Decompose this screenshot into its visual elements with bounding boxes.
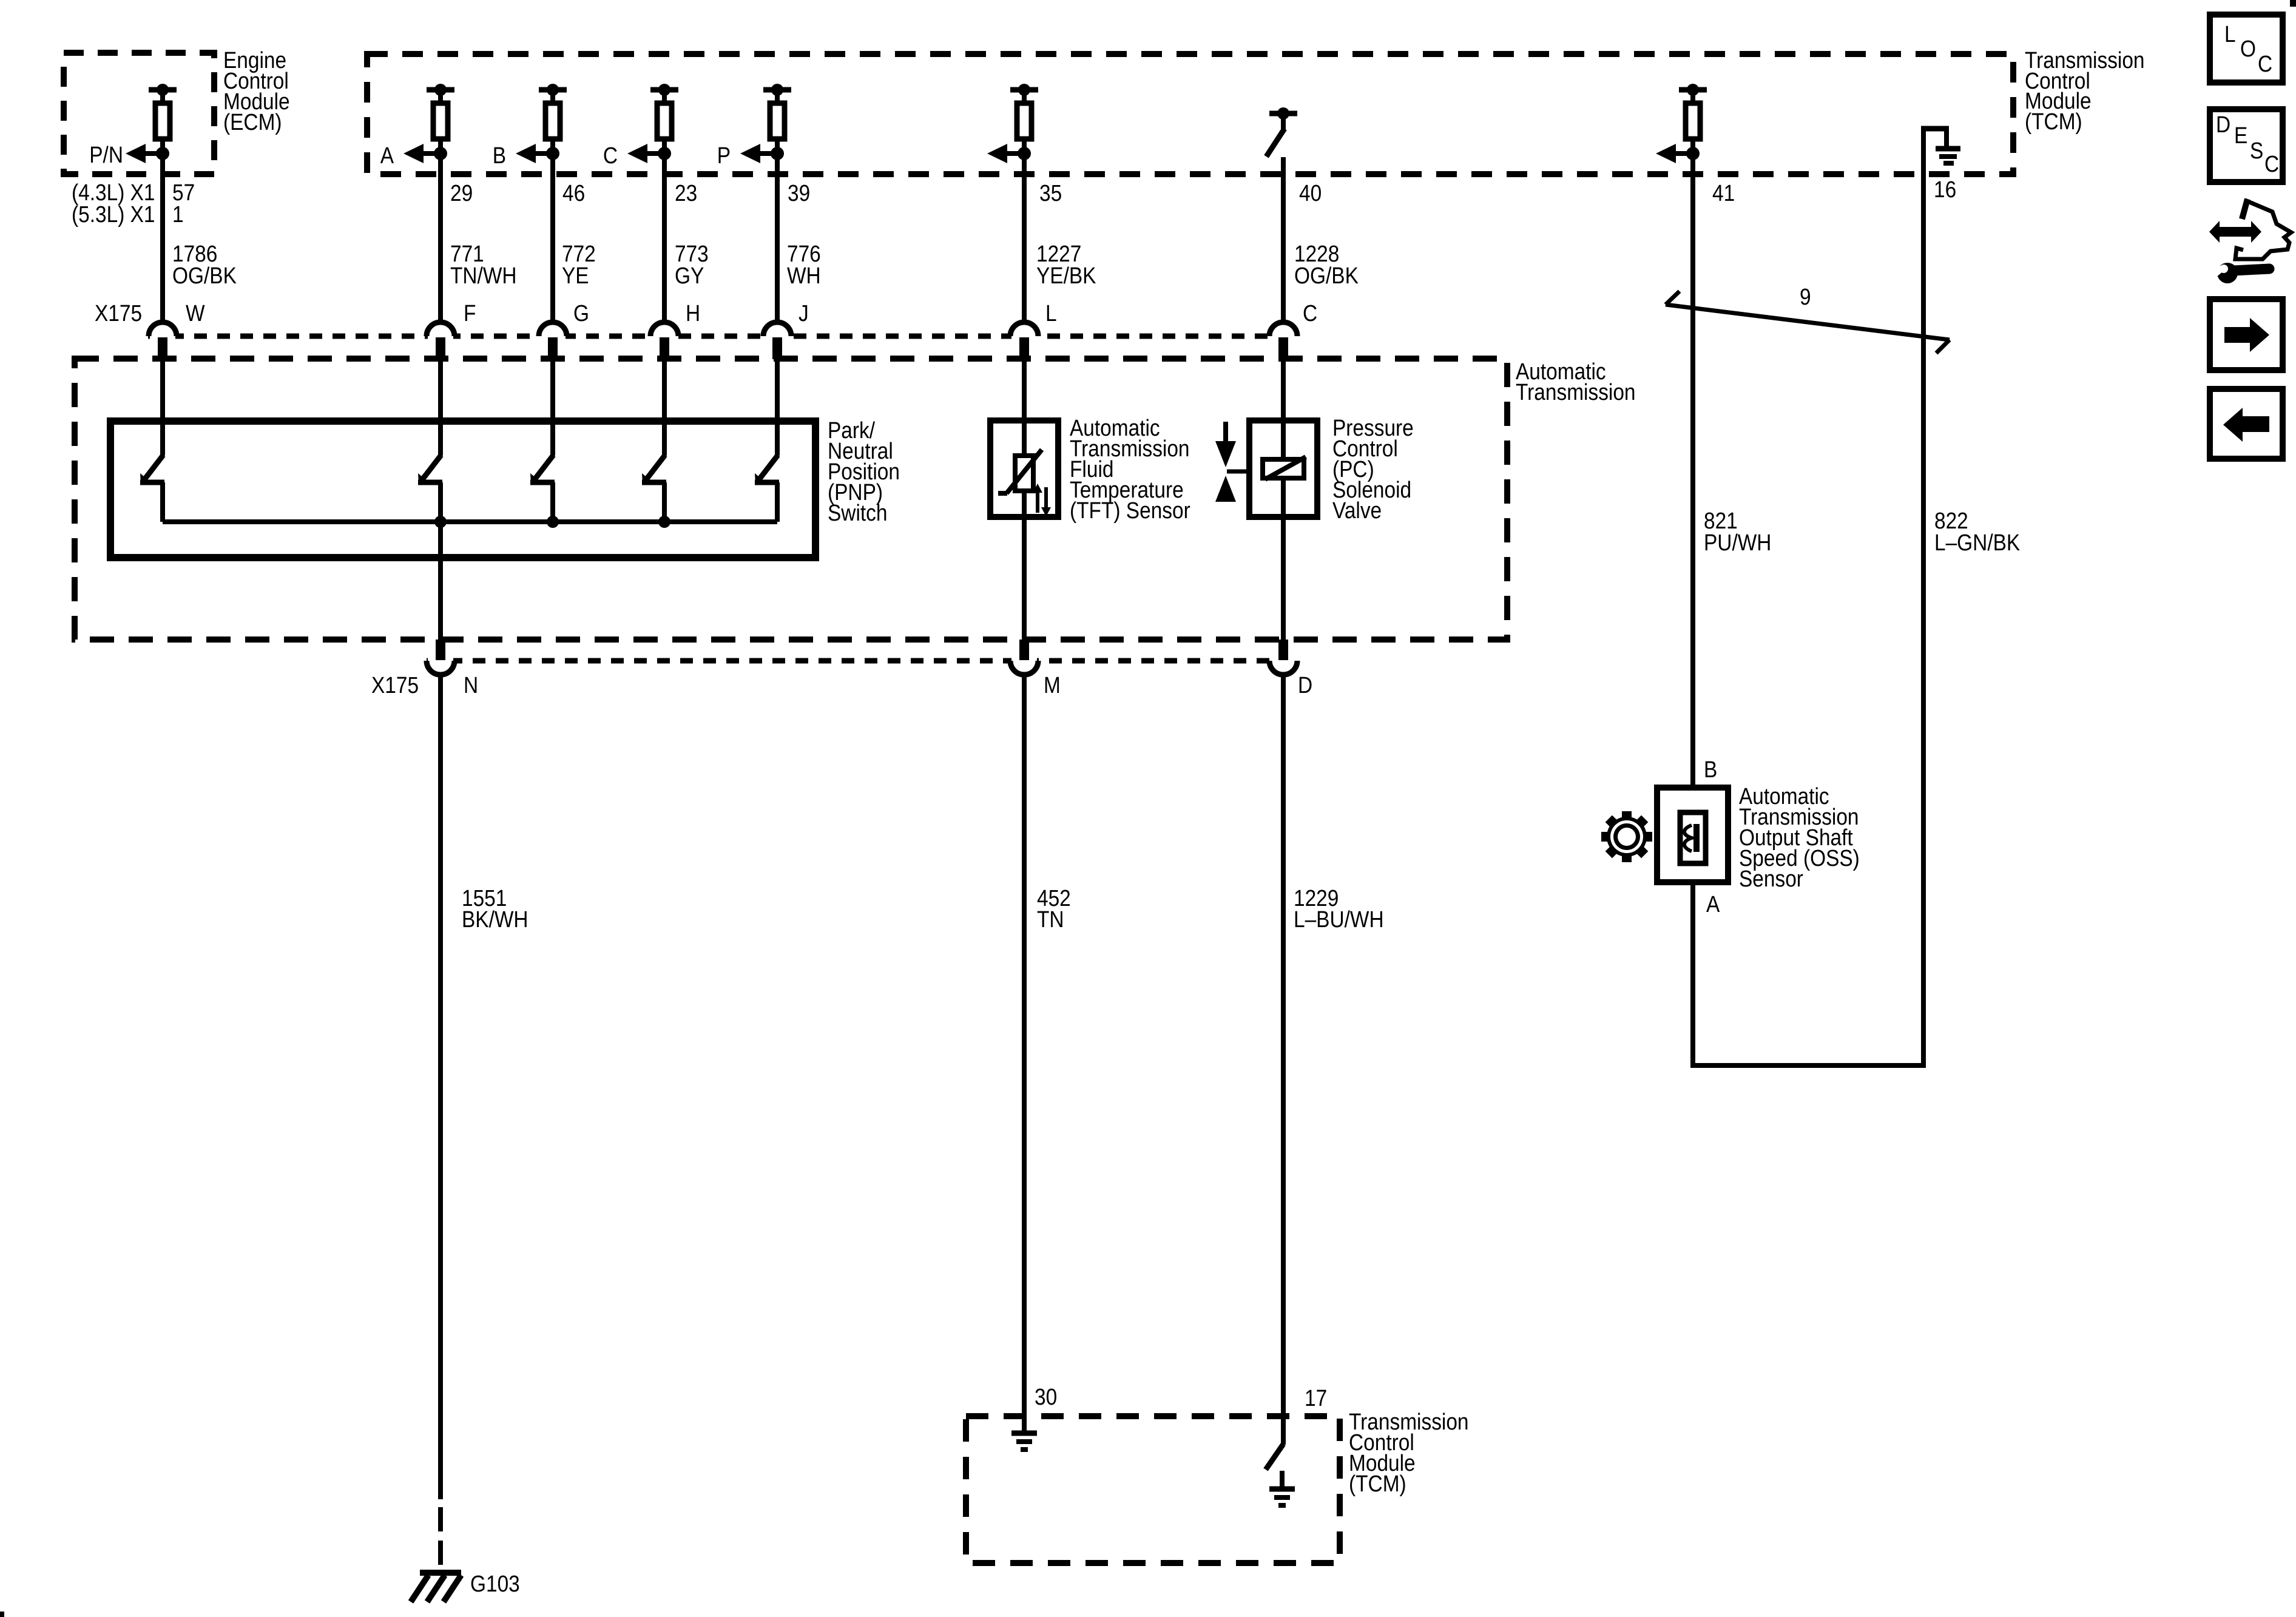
PC label bbox=[1332, 415, 1414, 523]
wire label 771 TN/WH bbox=[450, 241, 517, 288]
wire 773 GY: TCM pin 23 to connector X175-H bbox=[662, 154, 667, 322]
wire bottom link OSS-A to 822 bbox=[1690, 1063, 1926, 1068]
svg-text:OG/BK: OG/BK bbox=[172, 263, 237, 288]
TFT sensor box bbox=[990, 420, 1058, 517]
svg-text:W: W bbox=[186, 300, 205, 326]
svg-text:B: B bbox=[1704, 757, 1717, 782]
wire 822 L-GN/BK: TCM pin 16 down bbox=[1921, 175, 1926, 1068]
svg-text:30: 30 bbox=[1035, 1384, 1057, 1409]
DESC icon box bbox=[2210, 109, 2283, 182]
TCM internal resistor pin P (39) bbox=[740, 84, 791, 163]
svg-text:P: P bbox=[717, 143, 731, 168]
svg-text:G: G bbox=[573, 300, 589, 326]
svg-text:S: S bbox=[2250, 138, 2263, 163]
ECM internal resistor pin P/N bbox=[126, 84, 177, 163]
TCM internal resistor pin C (23) bbox=[627, 84, 678, 163]
svg-text:J: J bbox=[799, 300, 809, 326]
Automatic Transmission label bbox=[1516, 359, 1636, 405]
svg-text:(ECM): (ECM) bbox=[223, 109, 282, 135]
svg-text:A: A bbox=[380, 143, 394, 168]
connector cavity L bbox=[1010, 322, 1038, 359]
wire 1786 OG/BK: ECM pin 57/1 to connector X175-W bbox=[160, 154, 165, 322]
svg-text:GY: GY bbox=[675, 263, 704, 288]
wire label 773 GY bbox=[675, 241, 709, 288]
PNP switch contact 1 (W) bbox=[140, 455, 164, 522]
wire 772 YE: TCM pin 46 to connector X175-G bbox=[550, 154, 555, 322]
svg-text:TN/WH: TN/WH bbox=[450, 263, 517, 288]
X175 connector line (bottom) bbox=[427, 658, 1294, 664]
X175 connector line (top) bbox=[148, 334, 1297, 339]
svg-text:X175: X175 bbox=[95, 300, 142, 326]
svg-text:M: M bbox=[1044, 672, 1061, 698]
TCM internal ground pin 30 bbox=[1011, 1433, 1037, 1450]
wire 771 TN/WH: TCM pin 29 to connector X175-F bbox=[438, 154, 443, 322]
wire W into PNP switch bbox=[160, 359, 165, 456]
PNP common bus wire bbox=[163, 519, 777, 524]
OSS sensor box bbox=[1657, 788, 1728, 882]
svg-text:(TFT) Sensor: (TFT) Sensor bbox=[1070, 498, 1190, 523]
PC valve symbol bbox=[1215, 422, 1249, 502]
wire G into PNP switch bbox=[550, 359, 555, 456]
svg-text:16: 16 bbox=[1934, 177, 1956, 202]
svg-text:D: D bbox=[1298, 672, 1312, 698]
wire label 772 YE bbox=[562, 241, 596, 288]
svg-text:Sensor: Sensor bbox=[1739, 866, 1803, 891]
wire F into PNP switch bbox=[438, 359, 443, 456]
svg-text:Transmission: Transmission bbox=[1516, 379, 1636, 405]
svg-text:9: 9 bbox=[1800, 284, 1811, 309]
connector cavity H bbox=[650, 322, 678, 359]
wire OSS pin A down bbox=[1690, 882, 1695, 1068]
svg-text:OG/BK: OG/BK bbox=[1294, 263, 1359, 288]
wire C through PC solenoid to connector bbox=[1281, 359, 1286, 641]
wire 1229 L-BU/WH: connector X175-D to TCM pin 17 bbox=[1281, 675, 1286, 1445]
connector cavity M bbox=[1010, 640, 1038, 675]
TCM label (top) bbox=[2025, 47, 2145, 134]
wire 1551 dashed segment near ground bbox=[438, 1507, 443, 1573]
ECM label bbox=[223, 47, 290, 135]
connector cavity C bbox=[1269, 322, 1297, 359]
wire label 776 WH bbox=[787, 241, 821, 288]
TCM internal resistor pin B (46) bbox=[516, 84, 567, 163]
PNP switch contact 3 (G) bbox=[530, 455, 555, 522]
svg-text:46: 46 bbox=[562, 180, 585, 206]
wire 1228 OG/BK: TCM pin 40 to connector X175-C bbox=[1281, 157, 1286, 322]
svg-text:35: 35 bbox=[1039, 180, 1062, 206]
svg-text:(TCM): (TCM) bbox=[1349, 1471, 1406, 1496]
svg-text:PU/WH: PU/WH bbox=[1704, 530, 1771, 555]
svg-text:C: C bbox=[1303, 300, 1317, 326]
svg-text:(5.3L) X1: (5.3L) X1 bbox=[72, 201, 155, 227]
junction dot F bbox=[434, 516, 447, 528]
TCM label (bottom) bbox=[1349, 1409, 1469, 1496]
svg-text:L–BU/WH: L–BU/WH bbox=[1294, 906, 1384, 932]
svg-text:40: 40 bbox=[1299, 180, 1322, 206]
svg-text:1: 1 bbox=[172, 201, 184, 227]
wire H into PNP switch bbox=[662, 359, 667, 456]
svg-text:YE: YE bbox=[562, 263, 589, 288]
TCM dashed module box (top) bbox=[367, 54, 2013, 174]
svg-text:E: E bbox=[2234, 123, 2247, 148]
wire label 822 L-GN/BK bbox=[1934, 508, 2020, 555]
OSS label bbox=[1739, 783, 1860, 891]
svg-text:L–GN/BK: L–GN/BK bbox=[1934, 530, 2020, 555]
svg-text:29: 29 bbox=[450, 180, 473, 206]
reference line 9 (off-page) bbox=[1666, 305, 1950, 340]
TCM internal resistor pin 35 bbox=[987, 84, 1038, 163]
wire label 1227 YE/BK bbox=[1036, 241, 1096, 288]
LOC icon box bbox=[2210, 15, 2283, 83]
svg-text:C: C bbox=[2264, 151, 2279, 177]
svg-text:P/N: P/N bbox=[89, 142, 123, 167]
svg-text:BK/WH: BK/WH bbox=[462, 906, 528, 932]
connector cavity F bbox=[427, 322, 454, 359]
connector cavity W bbox=[149, 322, 177, 359]
svg-text:41: 41 bbox=[1712, 180, 1735, 206]
page corner mark bottom-left bbox=[0, 1612, 4, 1617]
svg-text:YE/BK: YE/BK bbox=[1036, 263, 1096, 288]
svg-text:WH: WH bbox=[787, 263, 821, 288]
svg-text:B: B bbox=[493, 143, 506, 168]
TCM internal ground pin 17 bbox=[1269, 1489, 1295, 1505]
page corner mark top-right bbox=[2290, 0, 2296, 7]
svg-text:(TCM): (TCM) bbox=[2025, 109, 2082, 134]
ground G103 bbox=[411, 1573, 461, 1602]
svg-text:C: C bbox=[2258, 51, 2272, 76]
connector cavity G bbox=[539, 322, 567, 359]
wire L through TFT sensor to connector bbox=[1022, 359, 1027, 641]
diagnostic hand/wrench icon bbox=[2209, 199, 2291, 283]
svg-text:L: L bbox=[1045, 300, 1057, 326]
Automatic Transmission dashed box bbox=[75, 359, 1507, 640]
left arrow icon box bbox=[2210, 389, 2283, 459]
wire 1227 YE/BK: TCM pin 35 to connector X175-L bbox=[1022, 154, 1027, 322]
connector cavity D bbox=[1269, 640, 1297, 675]
svg-text:L: L bbox=[2224, 21, 2236, 47]
svg-text:D: D bbox=[2216, 112, 2230, 137]
svg-text:Switch: Switch bbox=[828, 500, 887, 525]
svg-text:17: 17 bbox=[1305, 1385, 1327, 1411]
connector cavity J bbox=[763, 322, 791, 359]
PNP switch contact 5 (J) bbox=[755, 455, 779, 522]
PC solenoid valve box bbox=[1249, 420, 1317, 517]
svg-text:Valve: Valve bbox=[1332, 498, 1382, 523]
wire 821 PU/WH: TCM pin 41 to OSS sensor pin B bbox=[1690, 154, 1695, 788]
PNP switch contact 4 (H) bbox=[642, 455, 666, 522]
PNP switch contact 2 (F) bbox=[418, 455, 442, 522]
ECM connector pin numbers bbox=[72, 180, 195, 227]
wire 452 TN: connector X175-M to TCM pin 30 bbox=[1022, 675, 1027, 1433]
OSS pickup element bbox=[1680, 812, 1706, 863]
wire label 1551 BK/WH bbox=[462, 885, 528, 932]
TCM internal resistor pin A (29) bbox=[403, 84, 454, 163]
svg-text:C: C bbox=[603, 143, 618, 168]
wire label 1229 L-BU/WH bbox=[1294, 885, 1384, 932]
TCM internal switch pin 17 bbox=[1266, 1444, 1283, 1489]
TFT up/down arrows bbox=[1033, 484, 1051, 516]
right arrow icon box bbox=[2210, 299, 2283, 370]
svg-text:X175: X175 bbox=[371, 672, 419, 698]
TCM internal ground pin 16 bbox=[1921, 126, 1960, 175]
svg-text:39: 39 bbox=[788, 180, 810, 206]
connector cavity N bbox=[427, 640, 454, 675]
svg-text:H: H bbox=[686, 300, 700, 326]
svg-text:23: 23 bbox=[675, 180, 697, 206]
TCM internal resistor pin 41 bbox=[1656, 84, 1707, 163]
wire label 452 TN bbox=[1037, 885, 1071, 932]
TFT label bbox=[1070, 415, 1190, 523]
svg-text:N: N bbox=[464, 672, 478, 698]
svg-text:O: O bbox=[2240, 36, 2256, 61]
wire label 1228 OG/BK bbox=[1294, 241, 1359, 288]
TCM internal switch pin 40 bbox=[1266, 107, 1297, 157]
PNP label bbox=[828, 417, 900, 525]
svg-text:F: F bbox=[464, 300, 476, 326]
wire label 1786 OG/BK bbox=[172, 241, 237, 288]
wire J into PNP switch bbox=[775, 359, 780, 456]
svg-text:A: A bbox=[1706, 891, 1720, 917]
PNP switch box bbox=[110, 421, 815, 558]
ECM dashed module box bbox=[64, 53, 214, 174]
svg-text:G103: G103 bbox=[470, 1571, 520, 1596]
wire 776 WH: TCM pin 39 to connector X175-J bbox=[775, 154, 780, 322]
junction dot H bbox=[658, 516, 670, 528]
TFT thermistor symbol bbox=[998, 450, 1042, 493]
wire label 821 PU/WH bbox=[1704, 508, 1771, 555]
svg-text:TN: TN bbox=[1037, 906, 1064, 932]
wire 1551 BK/WH: connector X175-N to ground G103 bbox=[438, 522, 443, 641]
OSS gear icon bbox=[1601, 811, 1652, 862]
PC solenoid coil symbol bbox=[1263, 457, 1306, 479]
TCM dashed module box (bottom) bbox=[966, 1416, 1340, 1563]
junction dot G bbox=[547, 516, 559, 528]
